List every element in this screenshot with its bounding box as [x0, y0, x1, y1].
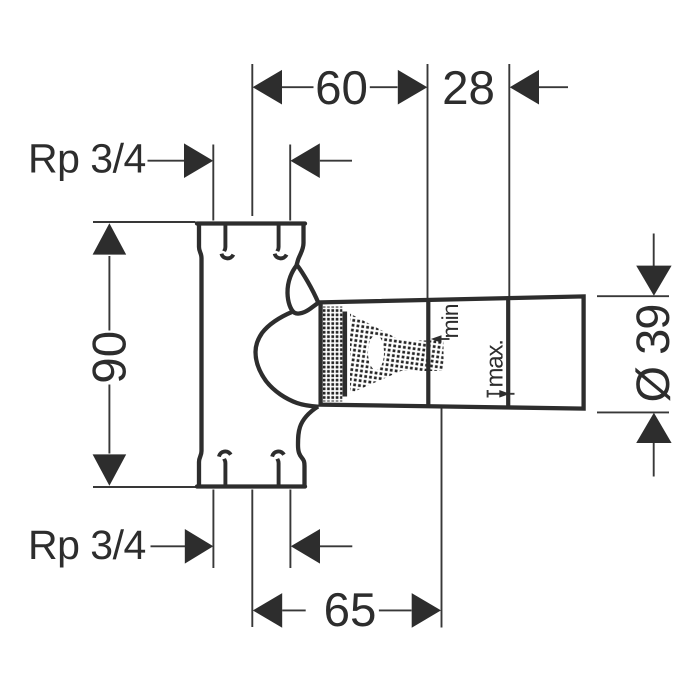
body: top edge: [197, 221, 305, 225]
body: bottom edge: [197, 484, 305, 488]
wire: dim 90 top extension: [93, 221, 196, 223]
body: top thread hook 2 arc: [275, 254, 287, 259]
svg-text:65: 65: [324, 584, 377, 637]
svg-text:min: min: [437, 304, 463, 338]
cartridge: max line: [506, 298, 510, 407]
arrow: dim 90 up: [93, 223, 127, 254]
body: bottom thread hook 2 arc: [272, 451, 284, 456]
arrow: dim 60 right: [398, 70, 428, 105]
wire: dim 90 bottom extension: [93, 486, 196, 488]
body: right edge lower: [298, 407, 318, 488]
svg-text:90: 90: [83, 331, 136, 384]
wire: min pointer tail: [441, 338, 450, 340]
cartridge: cone hollow: [368, 335, 384, 370]
arrow: dim 39 down: [636, 266, 671, 296]
svg-text:Ø 39: Ø 39: [626, 305, 679, 403]
arrow: dim 90 down: [93, 454, 127, 485]
arrow: dim 65 right: [412, 593, 441, 628]
wire: dim 90 vertical segments: [108, 256, 110, 454]
wire: Rp top extension lines: [213, 145, 290, 221]
wire: dim 60 line segments: [282, 86, 398, 88]
arrow: dim 39 up: [636, 413, 671, 443]
wire: max pointer tip line: [510, 393, 515, 395]
body: top thread hook 1 stem: [224, 225, 225, 251]
label: diameter 39 rotated: [626, 305, 679, 403]
label: 90 rotated: [83, 331, 136, 384]
label: max rotated: [482, 340, 509, 387]
svg-text:28: 28: [442, 62, 495, 115]
wire: dim 65 line segments: [282, 609, 411, 611]
body: bottom thread hook 1 stem: [224, 459, 225, 485]
wire: dim 39 top vertical: [653, 234, 655, 267]
arrow: Rp top left-pointing: [290, 143, 319, 178]
label: min rotated: [437, 304, 463, 338]
arrow: dim 60 left: [253, 70, 282, 105]
arrow: max pointer: [499, 390, 510, 398]
wire: dim 60 extension line left: [251, 64, 253, 216]
cartridge: solid bar: [343, 312, 348, 397]
cartridge: dotted stem: [401, 341, 444, 372]
body: top thread hook 1 arc: [222, 254, 234, 259]
svg-text:60: 60: [315, 62, 368, 115]
arrow: min pointer: [431, 335, 442, 343]
wire: dim 65 extension right: [441, 376, 443, 628]
arrow: Rp bottom left-pointing: [291, 529, 320, 564]
body: right edge upper: [296, 222, 303, 267]
svg-text:Rp 3/4: Rp 3/4: [28, 522, 146, 568]
body: bottom thread hook 2 stem: [277, 459, 278, 485]
arrow: dim 28 right outside: [510, 70, 539, 105]
cartridge: min line: [426, 300, 430, 406]
wire: Rp top tail: [320, 160, 352, 162]
svg-text:Rp 3/4: Rp 3/4: [28, 136, 146, 182]
arrow: Rp top right-pointing: [184, 143, 213, 178]
wire: dim 60/28 extension line middle: [427, 64, 429, 300]
body: bell upper curve: [256, 312, 294, 353]
cartridge: outline trapezoid: [321, 296, 584, 408]
body: teardrop: [287, 265, 318, 314]
arrow: Rp bottom right-pointing: [185, 529, 214, 564]
body: top thread hook 2 stem: [277, 225, 278, 251]
wire: Rp bottom extension lines: [213, 490, 290, 569]
wire: dim 28 extension line right: [508, 64, 510, 296]
svg-text:max.: max.: [482, 340, 509, 387]
wire: Rp bottom tail: [320, 545, 352, 547]
cartridge: dotted filter band: [323, 307, 343, 402]
wire: dim 39 bottom vertical: [653, 443, 655, 477]
arrow: dim 65 left: [253, 593, 282, 628]
wire: Rp bottom leader: [151, 545, 186, 547]
wire: max pointer tick: [487, 390, 489, 398]
body: bottom thread hook 1 arc: [219, 451, 231, 456]
wire: dim 39 extension bottom: [597, 411, 669, 413]
wire: Rp top leader: [148, 160, 186, 162]
wire: dim 65 extension left: [251, 490, 253, 628]
body: bell lower curve: [256, 352, 319, 407]
wire: dim 39 extension top: [597, 295, 669, 297]
wire: max pointer tail: [488, 393, 500, 395]
cartridge: dotted cone: [350, 314, 401, 394]
body: left edge: [199, 222, 202, 487]
wire: dim 28 tail: [539, 86, 568, 88]
